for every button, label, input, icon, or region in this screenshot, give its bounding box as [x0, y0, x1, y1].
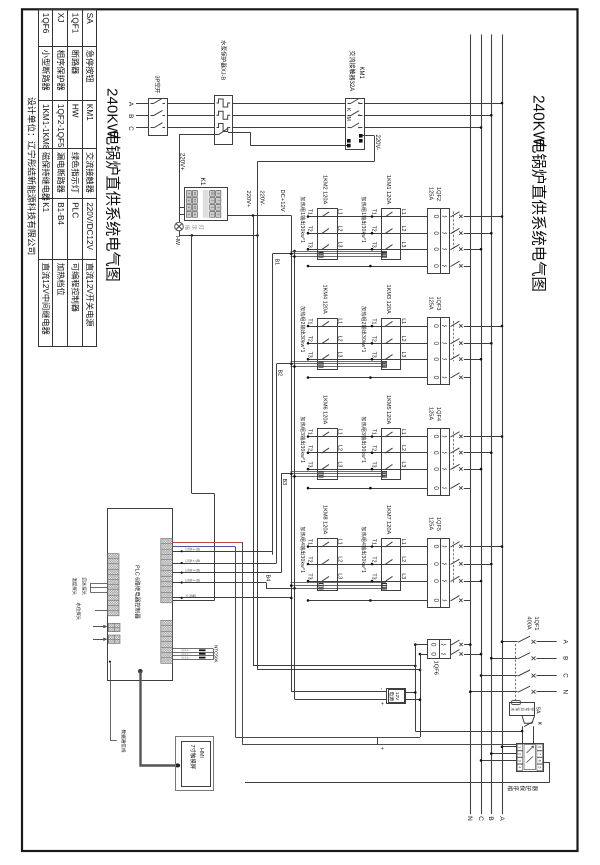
- svg-text:L2: L2: [336, 556, 342, 562]
- contactor KM1 box: [346, 99, 365, 150]
- svg-text:可编程控制器: 可编程控制器: [71, 263, 81, 312]
- wire PLC output 1: [172, 551, 272, 553]
- svg-text:水位探头: 水位探头: [75, 603, 82, 621]
- svg-text:C: C: [127, 126, 134, 131]
- breaker 1QF4 pole blade: [451, 464, 460, 469]
- svg-text:L3: L3: [400, 352, 406, 358]
- wire group3 phase row L2: [308, 452, 428, 454]
- svg-text:2: 2: [192, 560, 196, 562]
- svg-text:125A: 125A: [427, 187, 433, 200]
- svg-text:T2: T2: [371, 556, 377, 562]
- vertical feed wire N: [420, 654, 422, 737]
- wire 1QF2 to bus C: [464, 249, 481, 251]
- wire K1 to control rails: [227, 215, 291, 217]
- HMI communication cable thick: [138, 669, 143, 674]
- wire PLC output 2: [172, 563, 276, 565]
- svg-text:K: K: [345, 108, 351, 112]
- svg-text:L3: L3: [400, 573, 406, 579]
- wire 1QF2 to bus A: [464, 216, 502, 218]
- svg-text:T1: T1: [371, 209, 377, 215]
- svg-text:B1: B1: [210, 192, 214, 196]
- wire phase C input run: [136, 127, 148, 129]
- breaker 1QF3 pole blade: [451, 321, 460, 326]
- svg-text:12V: 12V: [394, 692, 400, 701]
- breaker 1QF5 pole blade: [451, 542, 460, 547]
- relay 1KM2 120A box: [318, 209, 338, 260]
- svg-text:加热组4输出30kw*1: 加热组4输出30kw*1: [360, 527, 367, 574]
- svg-text:+: +: [379, 702, 385, 705]
- relay 1KM3 coil block: [382, 361, 386, 367]
- bus line A: [502, 35, 504, 815]
- HMI touch screen box: [176, 737, 214, 791]
- svg-text:L3: L3: [400, 462, 406, 468]
- svg-text:T1: T1: [307, 429, 313, 435]
- svg-text:L2: L2: [336, 336, 342, 342]
- svg-text:设计单位：辽宁彤结新能源科技有限公司: 设计单位：辽宁彤结新能源科技有限公司: [27, 97, 38, 255]
- svg-text:L1: L1: [336, 539, 342, 545]
- svg-text:停: 停: [530, 707, 535, 711]
- svg-text:T1: T1: [307, 209, 313, 215]
- svg-text:加热组2输出30kw*1: 加热组2输出30kw*1: [299, 306, 306, 353]
- svg-text:L3: L3: [336, 242, 342, 248]
- PLC lower right terminal strip: [161, 620, 173, 663]
- svg-text:B: B: [562, 656, 569, 660]
- svg-text:8: 8: [538, 746, 542, 748]
- breaker 1QF2 pole blade: [451, 261, 460, 266]
- wire KM1 coil to 220V- rail: [363, 135, 375, 137]
- wire PSU L input: [406, 692, 415, 694]
- svg-text:电锅炉直供系统电气图: 电锅炉直供系统电气图: [529, 138, 547, 292]
- svg-text:10: 10: [193, 206, 197, 210]
- wire 1QF4 to bus C: [464, 469, 481, 471]
- svg-text:直流12V中间继电器: 直流12V中间继电器: [41, 263, 51, 335]
- wire PLC output red: [172, 542, 242, 544]
- svg-text:磁保持继电器: 磁保持继电器: [41, 152, 51, 201]
- svg-text:PLC 6路继电器控制器: PLC 6路继电器控制器: [134, 565, 142, 619]
- breaker 1QF6 pole blade: [451, 650, 460, 655]
- relay 1KM7 coil block: [382, 583, 386, 589]
- wire group2 phase row L3: [308, 359, 428, 361]
- wire 220V- node drop to PLC input: [191, 234, 194, 237]
- svg-text:水: 水: [510, 707, 515, 711]
- wire group3 coil bundle: [291, 471, 386, 473]
- XJ internal arrow: [527, 747, 534, 754]
- breaker 1QF5 125A box: [428, 539, 450, 608]
- wire 1QF2 to bus B: [464, 233, 492, 235]
- svg-text:T1: T1: [307, 539, 313, 545]
- rail DC+12V vertical: [291, 216, 293, 692]
- wire PLC output blue: [172, 546, 235, 548]
- wire KM1 outputs to bus with taps: [365, 103, 503, 105]
- stop contact blade: [524, 722, 533, 727]
- relay 1KM4 coil block: [319, 361, 323, 367]
- svg-text:3P空开: 3P空开: [154, 76, 162, 94]
- circuit breaker 3P air switch box: [149, 99, 168, 136]
- wire group4 phase row L3: [308, 581, 428, 583]
- breaker 1QF3 trip linkage dashed: [453, 321, 455, 361]
- svg-text:L1: L1: [336, 209, 342, 215]
- svg-text:绿色指示灯: 绿色指示灯: [71, 152, 81, 193]
- svg-text:L3: L3: [336, 573, 342, 579]
- thermal element: [217, 124, 231, 132]
- relay 1KM6 coil block: [319, 471, 323, 477]
- svg-text:B: B: [487, 816, 494, 820]
- breaker 1QF5 trip linkage dashed: [453, 542, 455, 584]
- svg-text:L2: L2: [400, 556, 406, 562]
- svg-text:N: N: [466, 816, 473, 821]
- pump protector XJ-B box: [215, 96, 233, 145]
- svg-text:T2: T2: [307, 336, 313, 342]
- wire 1QF6 input stubs: [415, 644, 427, 646]
- bus line C: [481, 35, 483, 815]
- svg-text:XJ: XJ: [56, 13, 65, 23]
- wire 220V- rail to breaker feed: [258, 669, 421, 671]
- emergency stop SA box: [510, 703, 535, 716]
- thermal element: [217, 99, 231, 107]
- wire 1QF1 pole A: [502, 641, 518, 643]
- breaker 1QF5 pole blade: [451, 596, 460, 601]
- svg-text:NTC50K: NTC50K: [213, 645, 218, 664]
- svg-text:交流接触器32A: 交流接触器32A: [348, 51, 356, 92]
- svg-text:T3: T3: [371, 352, 377, 358]
- svg-text:T3: T3: [307, 462, 313, 468]
- PLC left input terminal strip: [107, 554, 119, 616]
- svg-text:1KM4 120A: 1KM4 120A: [321, 285, 327, 314]
- svg-text:L1: L1: [336, 318, 342, 324]
- svg-text:1QF2-1QF5: 1QF2-1QF5: [56, 104, 65, 148]
- svg-text:1QF6: 1QF6: [433, 661, 439, 676]
- svg-text:C: C: [562, 673, 569, 678]
- svg-text:1: 1: [192, 548, 196, 550]
- wire lamp to 220V- rail: [179, 231, 181, 236]
- svg-text:220V+: 220V+: [245, 191, 251, 209]
- wire 1QF4 to bus B: [464, 452, 492, 454]
- relay 1KM1 120A box: [382, 209, 401, 260]
- PLC controller box: [108, 509, 173, 681]
- wire PSU DC- output: [291, 691, 386, 693]
- wire group1 coil bundle: [291, 251, 386, 253]
- wire B4 control jog: [266, 583, 268, 589]
- breaker 1QF4 pole blade: [451, 432, 460, 437]
- wire 1QF1 pole B: [491, 658, 517, 660]
- wire group4 coil bundle: [291, 582, 386, 584]
- svg-text:水泵保护器XJ-B: 水泵保护器XJ-B: [220, 40, 228, 80]
- wire group1 phase row L3: [308, 249, 428, 251]
- svg-text:加热组3输出30kw*1: 加热组3输出30kw*1: [299, 417, 306, 464]
- bus line B: [491, 35, 493, 815]
- svg-text:6: 6: [538, 760, 542, 762]
- svg-text:断路器: 断路器: [71, 50, 81, 75]
- svg-text:L1: L1: [400, 539, 406, 545]
- XJ internal contact: [527, 757, 534, 763]
- wire group1 phase row L1: [308, 216, 428, 218]
- wire red control vertical: [242, 542, 244, 745]
- svg-text:T2: T2: [371, 445, 377, 451]
- svg-text:1QF1: 1QF1: [533, 617, 539, 631]
- thermal element: [217, 111, 231, 119]
- svg-text:T2: T2: [371, 226, 377, 232]
- svg-text:加热档位: 加热档位: [56, 263, 66, 296]
- wire phase B input run: [136, 115, 148, 117]
- svg-text:1: 1: [518, 746, 522, 748]
- breaker 1QF2 pole blade: [451, 244, 460, 249]
- svg-text:12: 12: [193, 192, 197, 196]
- svg-text:1KM7 120A: 1KM7 120A: [385, 505, 391, 534]
- wire group2 coil bundle: [291, 361, 386, 363]
- indicator lamp HW: [175, 222, 184, 231]
- breaker 1QF5 pole blade: [451, 559, 460, 564]
- svg-text:L1: L1: [336, 429, 342, 435]
- wire XJ-B contact to KM1 coil: [233, 132, 251, 134]
- wire PSU N input: [406, 699, 420, 701]
- relay 1KM5 coil block: [382, 471, 386, 477]
- wire interlock 731: [415, 731, 522, 733]
- svg-text:指: 指: [183, 225, 191, 230]
- wire 1QF5 to bus B: [464, 564, 492, 566]
- svg-text:220V-: 220V-: [259, 191, 265, 206]
- svg-text:温度探头: 温度探头: [71, 578, 78, 596]
- relay 1KM2 coil block: [319, 251, 323, 257]
- relay 1KM5 120A box: [382, 429, 401, 480]
- svg-text:HW: HW: [174, 236, 180, 246]
- wire stop contact down left: [522, 726, 524, 743]
- relay 1KM6 120A box: [318, 429, 338, 480]
- svg-text:-: -: [379, 688, 385, 690]
- rail 220V- vertical: [257, 162, 259, 670]
- KM1 coil terminals: [347, 139, 351, 143]
- svg-text:T2: T2: [307, 445, 313, 451]
- relay 1KM1 coil block: [382, 251, 386, 257]
- PLC left sensor wires: [90, 583, 107, 585]
- svg-text:加热组2输出30kw*1: 加热组2输出30kw*1: [360, 306, 367, 353]
- phase protector XJ box: [517, 744, 544, 772]
- svg-text:DC+12V: DC+12V: [279, 190, 285, 212]
- wire 1QF3 to bus C: [464, 359, 481, 361]
- svg-text:T3: T3: [371, 573, 377, 579]
- svg-text:相序保护器: 相序保护器: [56, 50, 66, 91]
- breaker 1QF4 pole blade: [451, 448, 460, 453]
- svg-text:B4: B4: [265, 575, 271, 582]
- svg-text:SA: SA: [535, 707, 541, 714]
- svg-text:异: 异: [520, 707, 525, 711]
- wire 1QF5 to bus N: [464, 600, 471, 602]
- svg-text:K1: K1: [199, 178, 206, 186]
- relay 1KM7 120A box: [382, 539, 401, 591]
- NTC sensor connector wires: [172, 648, 213, 650]
- arrow into terminal block 2: [93, 639, 106, 641]
- bus line N: [470, 35, 472, 815]
- XJ-B output contact: [214, 134, 219, 136]
- svg-text:220V-: 220V-: [374, 135, 380, 151]
- legend table grid: [38, 9, 40, 346]
- svg-text:加热组3输出30kw*1: 加热组3输出30kw*1: [360, 417, 367, 464]
- wire 1QF1 pole N: [470, 691, 517, 693]
- svg-text:1QF2: 1QF2: [435, 187, 441, 201]
- wire PSU DC+ output: [295, 699, 387, 701]
- breaker 1QF3 pole blade: [451, 339, 460, 344]
- svg-text:N: N: [562, 689, 569, 693]
- svg-text:1KM1-1KM8: 1KM1-1KM8: [41, 104, 50, 150]
- rail 220V+ vertical: [253, 216, 255, 666]
- svg-text:数据通信线: 数据通信线: [120, 730, 127, 753]
- svg-text:电锅炉直供系统电气图: 电锅炉直供系统电气图: [104, 130, 121, 282]
- breaker 1QF4 125A box: [428, 429, 450, 496]
- wire XJ pin1 from bus A: [502, 746, 517, 748]
- vertical feed wire L: [415, 645, 417, 731]
- svg-text:L2: L2: [336, 445, 342, 451]
- wire group4 neutral row: [308, 600, 428, 602]
- wire group3 phase row L3: [308, 469, 428, 471]
- power supply 12V box: [387, 689, 406, 704]
- wire 1QF5 to bus C: [464, 581, 481, 583]
- breaker 1QF3 125A box: [428, 318, 450, 385]
- svg-text:加热组1输出30kw*1: 加热组1输出30kw*1: [360, 197, 367, 244]
- K1 pin blocks: [203, 190, 209, 218]
- svg-text:T3: T3: [307, 352, 313, 358]
- svg-text:220V/DC12V: 220V/DC12V: [85, 202, 94, 250]
- wire 220V+ rail to breaker feed: [253, 665, 415, 667]
- wire 1QF3 to bus A: [464, 326, 502, 328]
- svg-text:T3: T3: [307, 573, 313, 579]
- breaker 1QF2 pole blade: [451, 228, 460, 233]
- svg-text:T2: T2: [371, 336, 377, 342]
- svg-text:L1: L1: [400, 209, 406, 215]
- svg-text:125A: 125A: [427, 517, 433, 530]
- svg-text:B2: B2: [277, 370, 283, 377]
- svg-text:1QF1: 1QF1: [71, 13, 80, 34]
- wire 220V+ drop from XJ-B: [179, 134, 214, 136]
- breaker 1QF3 pole blade: [451, 373, 460, 378]
- relay K1 box: [185, 188, 228, 221]
- svg-text:1QF6: 1QF6: [41, 13, 50, 34]
- wire group2 neutral row: [308, 377, 428, 379]
- svg-text:B: B: [127, 114, 134, 118]
- wire B3 control staircase: [281, 474, 283, 573]
- svg-text:+: +: [379, 747, 385, 750]
- wire 1QF4 to bus N: [464, 488, 471, 490]
- svg-text:L2: L2: [400, 226, 406, 232]
- svg-text:125A: 125A: [427, 407, 433, 420]
- wire 1QF2 to bus N: [464, 266, 471, 268]
- wire group1 neutral row: [308, 266, 428, 268]
- svg-text:T1: T1: [371, 318, 377, 324]
- svg-text:1KM5 120A: 1KM5 120A: [385, 395, 391, 424]
- svg-text:1KM1 120A: 1KM1 120A: [385, 175, 391, 204]
- wire XJ pin3 from bus C: [481, 760, 517, 762]
- svg-text:灯: 灯: [197, 225, 205, 230]
- svg-text:2: 2: [518, 753, 522, 755]
- svg-text:HW: HW: [71, 104, 80, 118]
- svg-text:器: 器: [531, 786, 538, 792]
- svg-text:B1: B1: [274, 259, 280, 266]
- svg-text:急停按钮: 急停按钮: [85, 50, 95, 83]
- svg-text:B1-B4: B1-B4: [56, 202, 65, 225]
- wire PLC output 4: [172, 582, 266, 584]
- svg-text:交流接触器: 交流接触器: [85, 152, 95, 193]
- svg-text:1QF5: 1QF5: [435, 517, 441, 531]
- wire group4 phase row L2: [308, 564, 428, 566]
- wire B1 control staircase: [272, 254, 274, 555]
- svg-text:4: 4: [518, 766, 522, 768]
- svg-text:小型断路器: 小型断路器: [41, 50, 51, 91]
- svg-text:7寸触摸屏: 7寸触摸屏: [189, 745, 197, 770]
- svg-text:HMI: HMI: [198, 748, 204, 758]
- svg-text:L2: L2: [400, 445, 406, 451]
- svg-text:T3: T3: [307, 242, 313, 248]
- svg-text:C: C: [477, 816, 484, 821]
- svg-text:KM1: KM1: [358, 67, 364, 80]
- svg-text:T1: T1: [307, 318, 313, 324]
- PLC right output terminal strip: [161, 539, 173, 603]
- wire XJ pin2 from bus B: [491, 753, 517, 755]
- relay 1KM8 120A box: [318, 539, 338, 591]
- wire 1QF1 pole C: [481, 675, 518, 677]
- svg-text:1KM3 120A: 1KM3 120A: [385, 285, 391, 314]
- wire PLC output 5: [172, 597, 291, 599]
- svg-text:3: 3: [192, 570, 196, 572]
- svg-text:加热组1输出30kw*1: 加热组1输出30kw*1: [299, 197, 306, 244]
- relay 1KM8 coil block: [319, 583, 323, 589]
- wire group4 phase row L1: [308, 546, 428, 548]
- svg-text:T1: T1: [371, 429, 377, 435]
- wire blue control vertical: [235, 547, 237, 737]
- breaker 1QF4 trip linkage dashed: [453, 432, 455, 472]
- wire XJ output loop: [543, 762, 550, 764]
- breaker 1QF6 pole blade: [451, 640, 460, 645]
- wire 1QF6 to bus N: [464, 644, 470, 646]
- svg-text:L3: L3: [400, 242, 406, 248]
- svg-text:220V+: 220V+: [178, 153, 184, 171]
- svg-text:L1: L1: [400, 429, 406, 435]
- svg-text:M: M: [345, 117, 351, 121]
- breaker 1QF2 pole blade: [451, 212, 460, 217]
- svg-text:1KM6 120A: 1KM6 120A: [321, 395, 327, 424]
- emergency stop button head: [515, 700, 517, 701]
- svg-text:400A: 400A: [526, 617, 532, 630]
- breaker 1QF2 125A box: [428, 209, 450, 274]
- svg-text:125A: 125A: [427, 297, 433, 310]
- svg-text:直流12V开关电源: 直流12V开关电源: [85, 263, 95, 327]
- svg-text:1QF4: 1QF4: [435, 407, 441, 421]
- PLC small terminal blocks: [108, 623, 120, 631]
- svg-text:T2: T2: [307, 556, 313, 562]
- rail DC-12V vertical: [294, 251, 296, 699]
- svg-text:电源: 电源: [388, 691, 395, 701]
- svg-text:漏电断路器: 漏电断路器: [56, 152, 66, 193]
- svg-text:示: 示: [190, 225, 197, 230]
- wire 220V+ stubs into K1: [179, 207, 184, 209]
- breaker 1QF2 trip linkage dashed: [453, 212, 455, 252]
- svg-text:A: A: [498, 816, 505, 821]
- stop actuator funnel: [522, 716, 534, 723]
- 1QF1 trip linkage dashed: [515, 644, 517, 700]
- svg-text:泵: 泵: [515, 707, 520, 711]
- svg-text:T3: T3: [371, 242, 377, 248]
- svg-text:L3: L3: [336, 462, 342, 468]
- svg-text:7: 7: [538, 753, 542, 755]
- wire red control bottom run: [242, 744, 516, 746]
- svg-text:4: 4: [192, 579, 196, 581]
- relay 1KM3 120A box: [382, 319, 401, 370]
- svg-text:3: 3: [518, 760, 522, 762]
- wire 1QF4 to bus A: [464, 436, 502, 438]
- PLC data line to HMI thin: [109, 661, 111, 663]
- wire phase A input run: [136, 103, 148, 105]
- svg-text:T2: T2: [307, 226, 313, 232]
- wire B2 control staircase: [276, 364, 278, 563]
- wire 1QF3 to bus N: [464, 377, 471, 379]
- breaker 1QF4 pole blade: [451, 483, 460, 488]
